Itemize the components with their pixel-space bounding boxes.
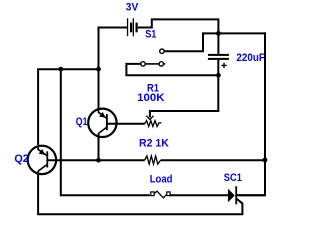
svg-text:R2 1K: R2 1K xyxy=(139,137,169,149)
svg-text:220uF: 220uF xyxy=(236,52,265,64)
svg-text:SC1: SC1 xyxy=(224,172,242,184)
svg-text:Q1: Q1 xyxy=(76,116,88,128)
svg-text:100K: 100K xyxy=(137,92,164,104)
svg-text:S1: S1 xyxy=(145,28,156,40)
svg-text:Load: Load xyxy=(150,174,173,186)
svg-text:Q2: Q2 xyxy=(14,153,28,165)
svg-text:3V: 3V xyxy=(126,2,139,14)
